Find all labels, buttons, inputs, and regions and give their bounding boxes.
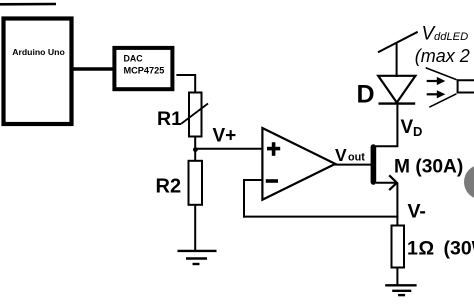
svg-text:V: V [335,145,347,165]
lamp lead diagonal upper [426,68,457,80]
wire V+ to op-amp [195,148,263,150]
svg-text:M (30A): M (30A) [394,156,463,177]
op-amp minus input mark [266,179,278,183]
wire Arduino to DAC [72,67,114,71]
wire op-amp minus stub [243,179,263,181]
R1 adjust slash [182,104,209,124]
lamp lead diagonal lower [429,94,456,107]
svg-text:V: V [401,117,414,138]
svg-text:D: D [413,124,422,139]
svg-text:D: D [357,80,375,108]
transistor M gate bar [371,147,377,182]
wire R2 to ground [194,205,196,252]
lamp body box [457,79,474,93]
op-amp plus input mark [267,142,280,156]
svg-text:R1: R1 [157,108,182,130]
svg-text:R2: R2 [156,176,182,198]
Arduino Uno block [4,19,72,125]
ground (left) [178,251,217,264]
svg-text:out: out [348,152,365,164]
svg-text:Ω: Ω [419,237,435,259]
wire top-left stub [0,3,56,6]
wire source to V- node [396,183,398,226]
wire R1 to R2 [194,136,196,161]
junction node V+ [193,147,198,152]
wire LED anode [396,43,398,78]
svg-text:ddLED: ddLED [434,31,468,43]
svg-text:MCP4725: MCP4725 [124,66,165,76]
wire DAC to R1 [176,75,195,93]
watermark gray circle [464,165,474,200]
DAC MCP4725 block [114,48,172,89]
svg-text:DAC: DAC [124,54,144,64]
svg-text:1: 1 [407,237,418,259]
light arrow 1 [427,80,439,82]
svg-text:(max 2: (max 2 [415,46,470,66]
resistor R2 [189,161,203,205]
LED D cathode bar [379,102,416,104]
light arrow 2 [427,93,439,95]
supply rail VddLED tick [378,32,418,53]
resistor R3 1 ohm [392,226,405,268]
wire op-amp output Vout [335,164,373,166]
svg-text:(30W: (30W [444,237,474,259]
svg-text:V-: V- [408,200,426,222]
svg-text:Arduino Uno: Arduino Uno [12,47,65,57]
LED D [378,76,415,103]
transistor M drain lead [376,102,397,146]
op-amp U1 [262,128,335,200]
transistor M source lead with arrow [376,182,397,184]
ground (right) [385,285,416,295]
svg-text:V+: V+ [213,126,237,147]
wire feedback vertical [243,179,245,218]
wire R3 to ground [396,267,398,286]
wire feedback bottom to V- [243,216,398,218]
resistor R1 [189,93,202,137]
